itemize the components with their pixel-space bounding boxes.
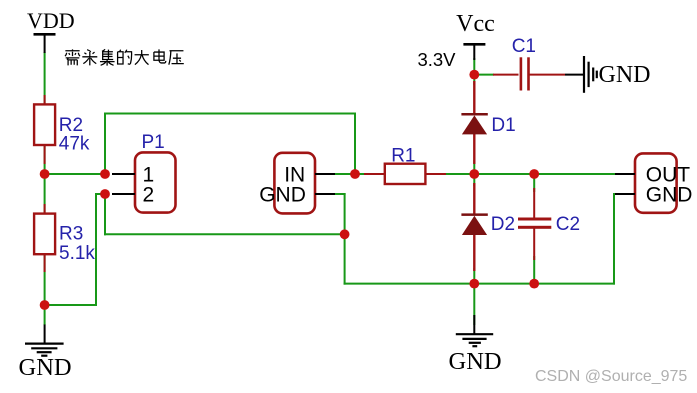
- svg-text:R3: R3: [59, 224, 83, 245]
- svg-text:5.1k: 5.1k: [59, 243, 95, 264]
- svg-text:GND: GND: [19, 354, 72, 381]
- svg-text:GND: GND: [599, 62, 651, 88]
- svg-text:GND: GND: [259, 184, 306, 207]
- svg-text:C1: C1: [512, 36, 536, 57]
- svg-text:3.3V: 3.3V: [417, 49, 456, 70]
- svg-text:P1: P1: [142, 132, 165, 153]
- svg-text:D1: D1: [491, 115, 515, 136]
- svg-text:2: 2: [143, 184, 155, 207]
- svg-text:GND: GND: [646, 184, 693, 207]
- svg-text:47k: 47k: [59, 133, 90, 154]
- svg-text:Vcc: Vcc: [456, 11, 495, 37]
- svg-text:CSDN @Source_975: CSDN @Source_975: [535, 368, 687, 385]
- svg-text:R1: R1: [391, 145, 415, 166]
- svg-text:D2: D2: [491, 214, 515, 235]
- svg-text:VDD: VDD: [27, 8, 75, 33]
- svg-text:C2: C2: [556, 214, 580, 235]
- svg-text:GND: GND: [449, 348, 502, 375]
